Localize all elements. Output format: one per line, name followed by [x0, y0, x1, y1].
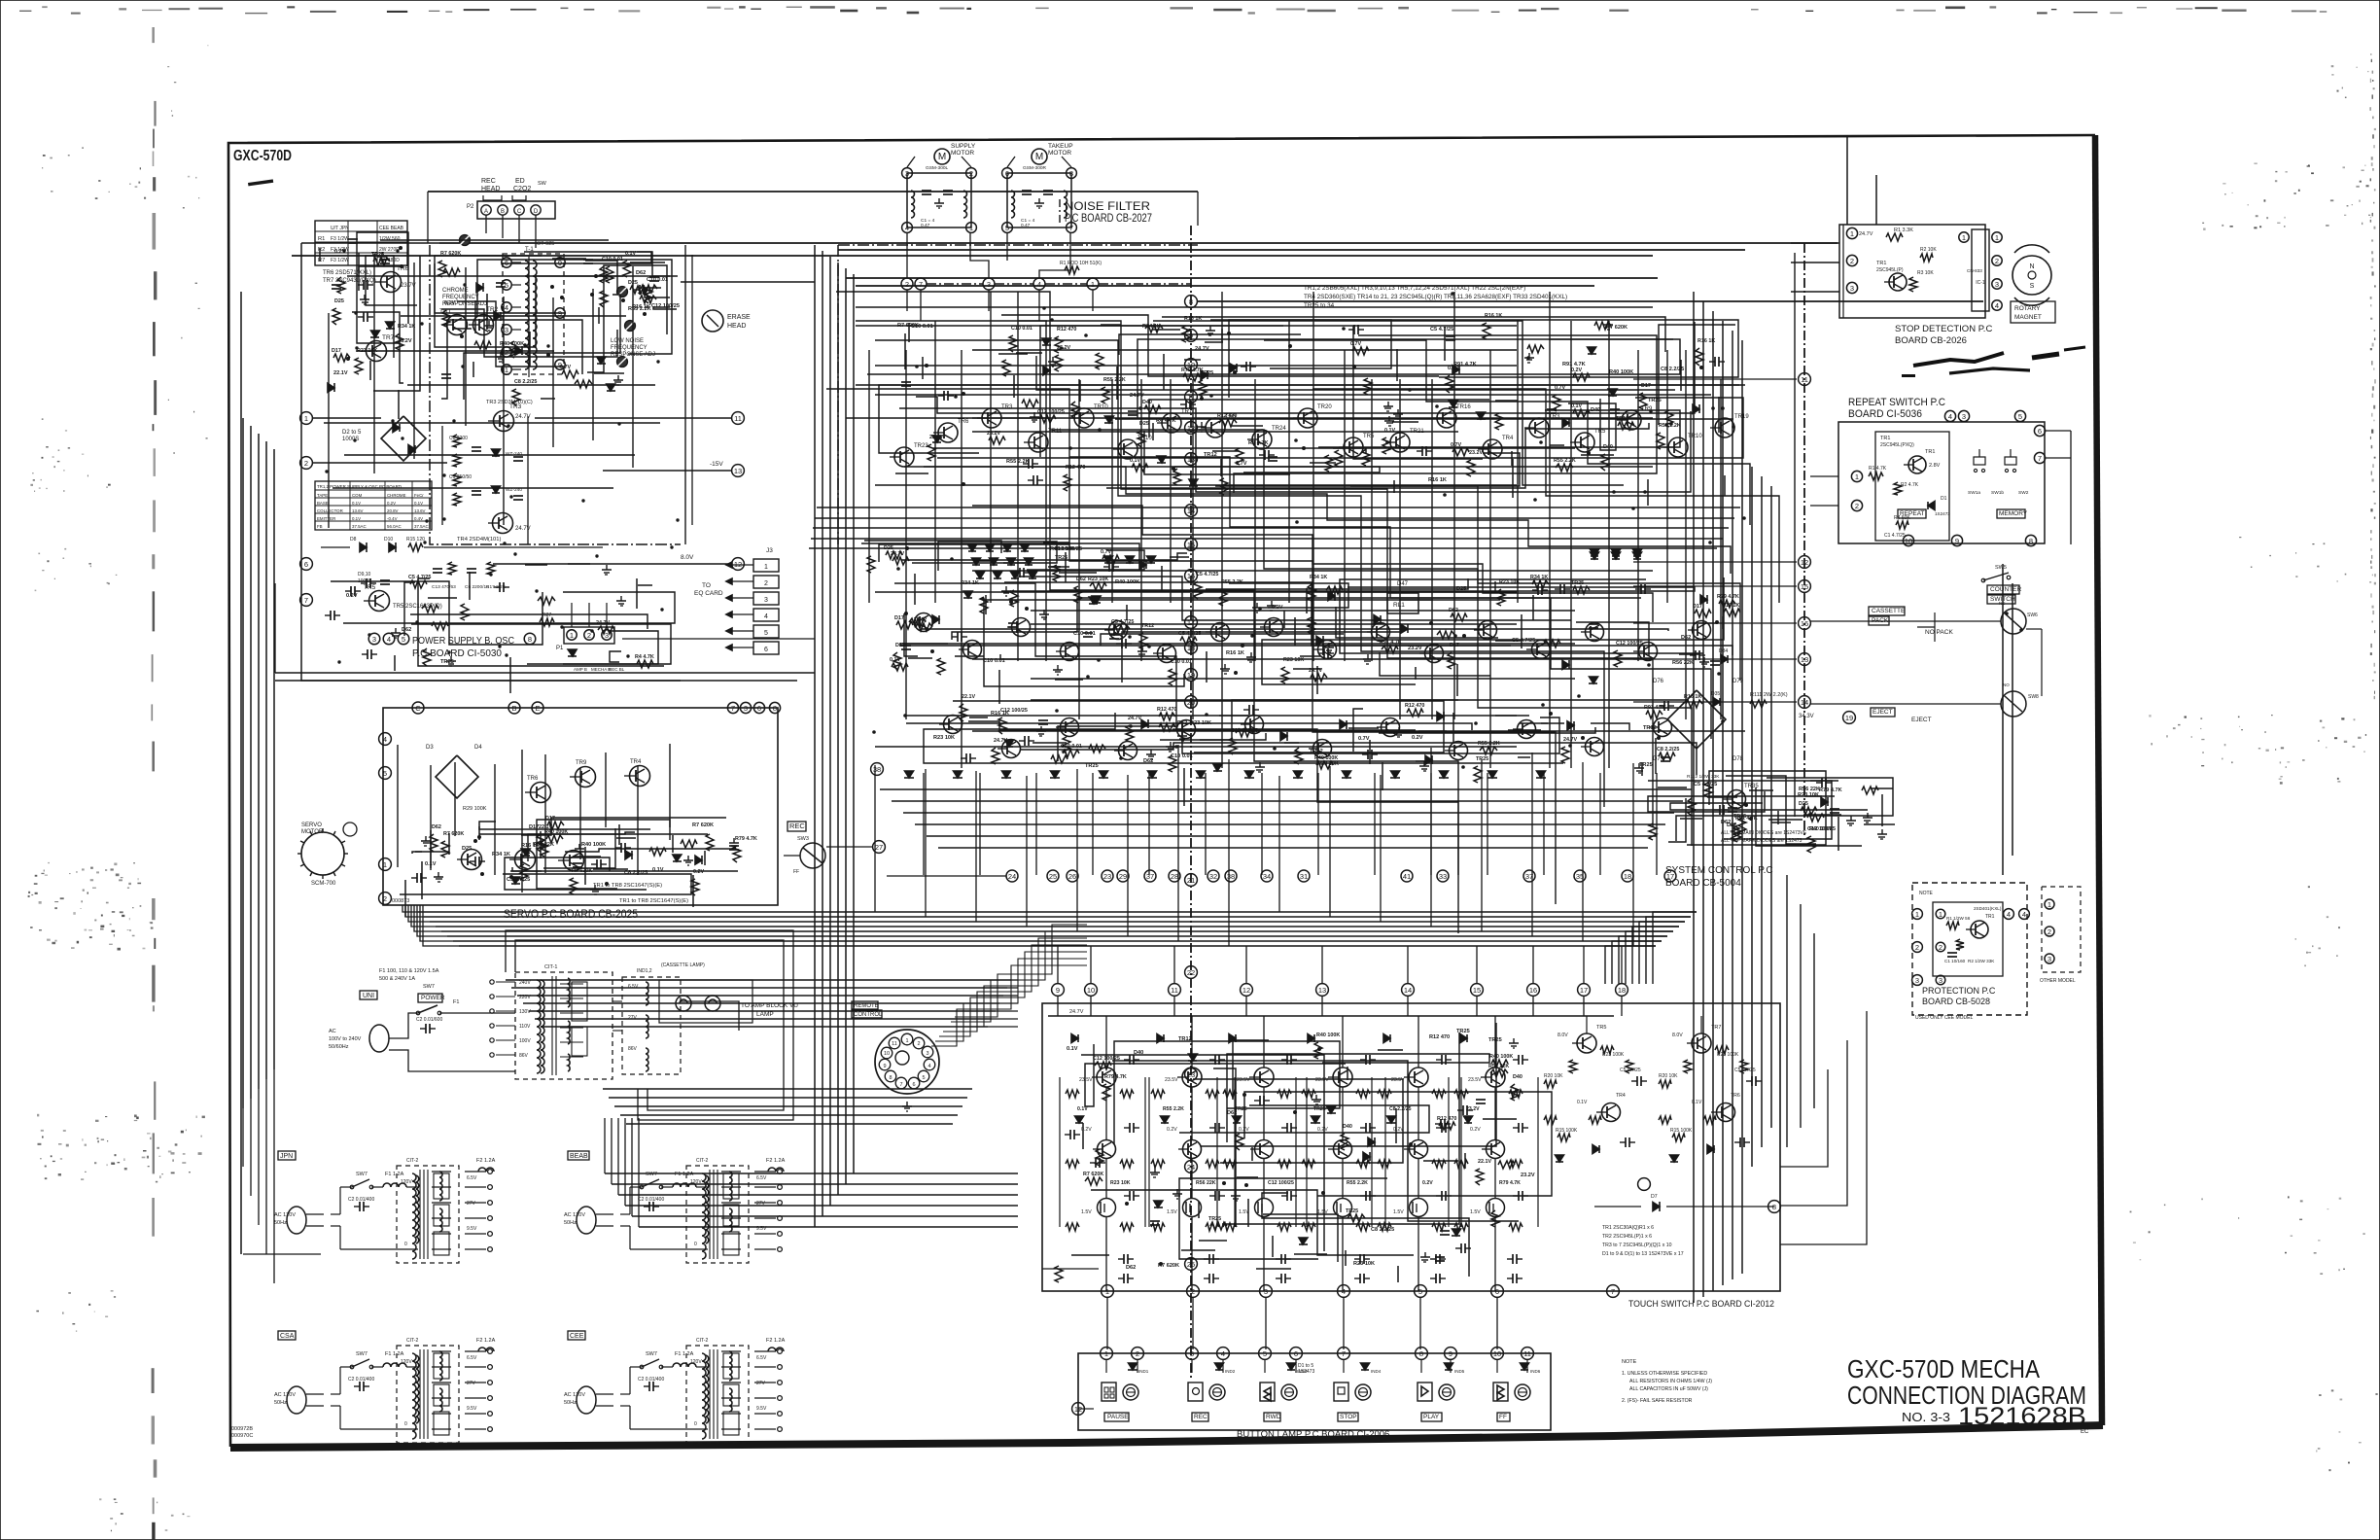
- svg-text:11: 11: [1801, 375, 1808, 384]
- svg-text:0.7V: 0.7V: [1555, 385, 1565, 391]
- svg-text:11: 11: [1523, 1349, 1531, 1358]
- svg-text:17: 17: [1580, 986, 1588, 995]
- svg-text:130V: 130V: [519, 1009, 531, 1015]
- svg-text:4: 4: [383, 735, 387, 744]
- svg-text:D40: D40: [1513, 1074, 1522, 1080]
- svg-text:R23 10K: R23 10K: [1798, 792, 1819, 798]
- svg-text:8.0V: 8.0V: [1557, 1032, 1568, 1038]
- svg-text:SERVO P.C BOARD CB-2025: SERVO P.C BOARD CB-2025: [504, 907, 638, 921]
- svg-text:2SD401(KXL): 2SD401(KXL): [1974, 906, 2002, 911]
- svg-text:TR25: TR25: [1055, 555, 1067, 561]
- svg-text:TR1 2SC30A(Q)R1 x 6: TR1 2SC30A(Q)R1 x 6: [1602, 1225, 1654, 1231]
- svg-text:5: 5: [2018, 412, 2022, 421]
- svg-text:R79 4.7K: R79 4.7K: [735, 836, 757, 842]
- svg-text:TR4: TR4: [630, 759, 642, 765]
- svg-text:R29 100K: R29 100K: [463, 806, 487, 812]
- svg-text:23.2V: 23.2V: [1466, 1106, 1480, 1112]
- svg-text:D8: D8: [350, 537, 357, 542]
- svg-text:R12 470: R12 470: [1157, 707, 1176, 713]
- svg-text:SW7: SW7: [356, 1172, 367, 1177]
- svg-text:CEE: CEE: [570, 1333, 584, 1340]
- svg-text:F1 100, 110 & 120V 1.5A: F1 100, 110 & 120V 1.5A: [379, 968, 439, 974]
- svg-text:D17: D17: [545, 816, 555, 822]
- svg-text:STOP DETECTION P.C: STOP DETECTION P.C: [1895, 324, 1992, 334]
- svg-text:C10 0.01: C10 0.01: [911, 324, 933, 330]
- svg-text:R20 10K: R20 10K: [1659, 1073, 1678, 1079]
- svg-text:C5 4.7/25: C5 4.7/25: [1734, 1067, 1756, 1073]
- svg-text:3: 3: [505, 326, 508, 334]
- svg-text:C5 4.7/25: C5 4.7/25: [1196, 572, 1218, 577]
- svg-text:TR1: TR1: [1925, 449, 1935, 455]
- svg-text:R16 1K: R16 1K: [1226, 650, 1244, 656]
- svg-text:LOW NOISE: LOW NOISE: [611, 338, 644, 344]
- svg-text:0: 0: [694, 1421, 697, 1427]
- svg-text:23.2V: 23.2V: [1408, 646, 1422, 651]
- svg-text:14: 14: [1404, 986, 1412, 995]
- svg-text:D25: D25: [884, 545, 893, 551]
- svg-text:41: 41: [1403, 872, 1411, 881]
- svg-text:SW2: SW2: [2018, 490, 2029, 496]
- svg-text:27V: 27V: [628, 1015, 638, 1021]
- svg-text:TR25: TR25: [1733, 814, 1746, 820]
- svg-text:-15V: -15V: [710, 461, 723, 468]
- svg-text:F1 1.2A: F1 1.2A: [385, 1351, 404, 1357]
- svg-text:D40: D40: [1142, 400, 1152, 405]
- svg-text:0.2V: 0.2V: [387, 501, 396, 506]
- svg-text:R23 10K: R23 10K: [1088, 577, 1108, 582]
- svg-text:000972B: 000972B: [231, 1426, 253, 1432]
- svg-text:FB: FB: [317, 524, 323, 529]
- svg-text:TR2: TR2: [486, 306, 499, 313]
- svg-text:C5 4.7/25: C5 4.7/25: [408, 575, 431, 580]
- svg-text:TR25: TR25: [1488, 1037, 1502, 1043]
- svg-text:6: 6: [304, 560, 308, 569]
- svg-text:1: 1: [383, 860, 387, 869]
- svg-text:HEAD: HEAD: [481, 186, 500, 192]
- svg-text:R40 100K: R40 100K: [1316, 1032, 1340, 1038]
- svg-text:TR6: TR6: [527, 776, 539, 782]
- svg-text:15: 15: [1473, 986, 1481, 995]
- svg-text:R1 ROD 10H 51(K): R1 ROD 10H 51(K): [1060, 261, 1102, 266]
- svg-text:R7 620K: R7 620K: [1083, 1172, 1103, 1177]
- svg-text:D9,10: D9,10: [358, 572, 371, 577]
- svg-text:C2 0.01/600: C2 0.01/600: [416, 1017, 442, 1023]
- svg-text:0.7V: 0.7V: [1451, 442, 1461, 448]
- svg-text:7: 7: [1069, 224, 1073, 232]
- svg-text:1521628B: 1521628B: [1958, 1403, 2086, 1430]
- svg-text:FF: FF: [793, 869, 799, 875]
- svg-text:R40 100K: R40 100K: [544, 829, 568, 835]
- svg-text:100V to 240V: 100V to 240V: [329, 1036, 362, 1042]
- svg-text:U/T JPN: U/T JPN: [331, 226, 349, 231]
- svg-text:TR25: TR25: [1456, 1029, 1470, 1034]
- svg-text:3: 3: [372, 635, 376, 644]
- svg-text:CN-833: CN-833: [1967, 268, 1982, 273]
- svg-text:OTHER MODEL: OTHER MODEL: [2040, 978, 2076, 984]
- svg-text:ALL -D4- MAIN DIODES are 1S247: ALL -D4- MAIN DIODES are 1S2473VE: [1721, 830, 1807, 836]
- svg-text:CHROME: CHROME: [442, 288, 469, 294]
- svg-text:7: 7: [2038, 454, 2042, 463]
- svg-text:4: 4: [764, 613, 768, 620]
- svg-text:0.1V: 0.1V: [1692, 1100, 1702, 1105]
- svg-text:D62: D62: [1126, 1265, 1136, 1271]
- svg-text:37.5AC: 37.5AC: [414, 524, 429, 529]
- svg-text:EJECT: EJECT: [1911, 717, 1932, 723]
- svg-text:D3: D3: [426, 745, 434, 751]
- svg-text:C12 100/25: C12 100/25: [1268, 1180, 1294, 1186]
- svg-text:D76: D76: [1653, 679, 1664, 684]
- svg-text:3: 3: [987, 280, 991, 289]
- svg-text:38: 38: [873, 765, 881, 774]
- svg-text:3: 3: [744, 704, 748, 713]
- svg-text:LAMP: LAMP: [756, 1011, 774, 1018]
- svg-text:TR7: TR7: [382, 334, 395, 341]
- svg-text:C8 2200: C8 2200: [449, 436, 468, 441]
- svg-text:24: 24: [1008, 872, 1016, 881]
- svg-text:16: 16: [1187, 572, 1195, 580]
- svg-text:D77: D77: [1653, 756, 1664, 762]
- svg-text:NOTE: NOTE: [1622, 1359, 1637, 1365]
- svg-text:IC-1: IC-1: [1976, 280, 1985, 286]
- svg-text:11: 11: [1171, 986, 1178, 995]
- svg-text:5: 5: [922, 1075, 925, 1081]
- svg-text:R23 10K: R23 10K: [1190, 720, 1211, 726]
- svg-text:AC 120V: AC 120V: [274, 1392, 296, 1398]
- svg-text:F1 1.2A: F1 1.2A: [385, 1172, 404, 1177]
- svg-text:R55 2.2K: R55 2.2K: [1103, 377, 1126, 383]
- svg-text:TR4: TR4: [1616, 1093, 1626, 1099]
- svg-text:M: M: [1035, 152, 1043, 162]
- svg-text:5: 5: [402, 635, 405, 644]
- svg-text:D1 to 9 & D(1) to 13 1S2473VE: D1 to 9 & D(1) to 13 1S2473VE x 17: [1602, 1251, 1684, 1257]
- svg-text:F1: F1: [453, 999, 459, 1005]
- svg-text:D17: D17: [1693, 604, 1702, 610]
- svg-text:EMITTER: EMITTER: [317, 516, 335, 521]
- svg-text:TOUCH SWITCH P.C BOARD CI-: TOUCH SWITCH P.C BOARD CI-2012: [1628, 1299, 1774, 1310]
- svg-text:1S2473: 1S2473: [1298, 1369, 1314, 1375]
- svg-text:R7 620K: R7 620K: [1158, 1263, 1179, 1269]
- svg-text:86V: 86V: [628, 1046, 638, 1052]
- svg-text:1: 1: [570, 631, 574, 640]
- svg-text:32: 32: [1209, 872, 1217, 881]
- svg-text:R56 22K: R56 22K: [1799, 787, 1820, 792]
- svg-text:2: 2: [764, 580, 768, 587]
- svg-text:IND2: IND2: [1225, 1369, 1236, 1374]
- svg-text:4: 4: [505, 303, 508, 312]
- svg-text:2: 2: [1915, 943, 1919, 952]
- svg-text:R23 10K: R23 10K: [1283, 657, 1304, 663]
- svg-text:6.5V: 6.5V: [756, 1175, 767, 1181]
- svg-text:24.7V: 24.7V: [994, 738, 1007, 744]
- svg-text:12: 12: [1801, 558, 1808, 567]
- svg-text:R34 1K: R34 1K: [398, 324, 415, 330]
- svg-text:NOTE: NOTE: [1919, 891, 1934, 896]
- svg-text:0.2V: 0.2V: [1412, 735, 1423, 741]
- svg-text:TR6: TR6: [958, 419, 969, 425]
- svg-text:000873: 000873: [392, 898, 409, 904]
- svg-text:4: 4: [2007, 910, 2011, 919]
- svg-text:0.2V: 0.2V: [1470, 1127, 1481, 1133]
- svg-text:5: 5: [1005, 224, 1009, 232]
- svg-text:AC: AC: [329, 1029, 336, 1034]
- svg-text:22.1V: 22.1V: [333, 370, 348, 376]
- svg-text:R56 22K: R56 22K: [1672, 660, 1694, 666]
- svg-text:R23 100K: R23 100K: [1717, 1052, 1739, 1058]
- svg-text:0.7V: 0.7V: [1358, 736, 1370, 742]
- svg-text:R2 10K: R2 10K: [1920, 247, 1937, 253]
- svg-text:0.2V: 0.2V: [693, 869, 704, 875]
- svg-text:D62: D62: [1177, 720, 1187, 726]
- svg-text:37.5AC: 37.5AC: [352, 524, 367, 529]
- svg-text:REMOTE: REMOTE: [854, 1003, 879, 1009]
- svg-text:7: 7: [919, 280, 923, 289]
- svg-text:2: 2: [1191, 1287, 1195, 1296]
- svg-text:ALL -D4- MARK DIODES are 1S247: ALL -D4- MARK DIODES are 1S2473: [1721, 838, 1802, 844]
- svg-text:2: 2: [1855, 502, 1859, 510]
- svg-text:B: B: [511, 704, 516, 713]
- svg-text:8: 8: [1069, 169, 1073, 178]
- svg-text:17: 17: [1666, 872, 1674, 881]
- svg-text:1.5V: 1.5V: [1470, 1209, 1481, 1215]
- svg-text:SW7: SW7: [423, 984, 435, 990]
- svg-text:BOARD CI-5036: BOARD CI-5036: [1848, 408, 1922, 420]
- svg-text:C12 100/25: C12 100/25: [1037, 409, 1065, 415]
- svg-text:D40: D40: [1591, 407, 1600, 413]
- svg-text:0: 0: [404, 1421, 407, 1427]
- svg-text:R4 4.7K: R4 4.7K: [635, 654, 654, 660]
- svg-text:0.1V: 0.1V: [652, 867, 664, 873]
- svg-text:0.47: 0.47: [921, 223, 930, 228]
- svg-text:NC: NC: [1999, 601, 2006, 606]
- svg-text:D62: D62: [636, 270, 646, 276]
- svg-text:C2 0.01/400: C2 0.01/400: [348, 1377, 374, 1382]
- svg-text:BOARD CB-2026: BOARD CB-2026: [1895, 335, 1967, 346]
- svg-text:NO PACK: NO PACK: [1925, 629, 1953, 636]
- svg-text:R79 4.7K: R79 4.7K: [1819, 787, 1842, 793]
- svg-text:TR4 2SD4M(101): TR4 2SD4M(101): [457, 537, 501, 542]
- svg-text:R16 1K: R16 1K: [632, 304, 650, 310]
- svg-text:000970C: 000970C: [231, 1433, 253, 1439]
- svg-text:TR25: TR25: [1208, 1216, 1221, 1222]
- svg-text:25: 25: [1049, 872, 1057, 881]
- svg-text:R55 2.2K: R55 2.2K: [1554, 458, 1576, 464]
- svg-text:UNI: UNI: [363, 993, 374, 999]
- svg-text:8: 8: [2029, 537, 2033, 545]
- svg-text:SERVO: SERVO: [301, 822, 322, 828]
- svg-text:R12 470: R12 470: [1405, 703, 1424, 709]
- svg-text:0: 0: [404, 1242, 407, 1247]
- svg-text:SW8: SW8: [2028, 694, 2039, 700]
- svg-text:BEAB: BEAB: [570, 1153, 588, 1160]
- svg-text:1: 1: [2047, 900, 2051, 909]
- svg-text:ALL RESISTORS IN OHMS 1/4W (J): ALL RESISTORS IN OHMS 1/4W (J): [1629, 1379, 1712, 1384]
- svg-text:C8 2.2/25: C8 2.2/25: [1657, 747, 1679, 752]
- svg-text:FF: FF: [1499, 1414, 1507, 1420]
- svg-text:R15 100K: R15 100K: [1670, 1128, 1693, 1134]
- svg-text:D17: D17: [895, 643, 905, 648]
- svg-text:(CASSETTE LAMP): (CASSETTE LAMP): [661, 962, 705, 968]
- svg-text:D79: D79: [1732, 679, 1744, 684]
- svg-text:GXC-570D: GXC-570D: [233, 148, 292, 164]
- svg-text:2: 2: [905, 280, 909, 289]
- svg-text:25: 25: [1187, 1260, 1195, 1269]
- svg-text:TR1: TR1: [1985, 914, 1995, 920]
- svg-text:86V: 86V: [519, 1053, 529, 1059]
- svg-text:R23 10K: R23 10K: [1110, 1180, 1131, 1186]
- svg-text:13.6V: 13.6V: [414, 508, 426, 513]
- svg-text:TR25: TR25: [1639, 762, 1653, 768]
- svg-text:D17: D17: [1641, 383, 1651, 389]
- svg-text:C: C: [415, 704, 421, 713]
- svg-text:0.7V: 0.7V: [1236, 461, 1247, 467]
- svg-text:4: 4: [1342, 1287, 1346, 1296]
- svg-text:2: 2: [917, 1041, 920, 1047]
- svg-text:SW3: SW3: [797, 836, 809, 842]
- svg-text:TR2 2SC945L(P)1 x 6: TR2 2SC945L(P)1 x 6: [1602, 1234, 1652, 1240]
- svg-text:22: 22: [1187, 968, 1195, 977]
- svg-text:C2 0.01/400: C2 0.01/400: [348, 1197, 374, 1203]
- svg-text:23.5V: 23.5V: [1315, 1077, 1329, 1083]
- svg-text:TR5: TR5: [1363, 434, 1375, 439]
- svg-text:FeCr: FeCr: [414, 493, 424, 498]
- svg-text:1: 1: [1850, 229, 1854, 238]
- svg-text:4: 4: [387, 635, 391, 644]
- svg-text:ED: ED: [515, 178, 525, 185]
- svg-text:4: 4: [1221, 1349, 1225, 1358]
- svg-text:23.2V: 23.2V: [1521, 1172, 1535, 1178]
- svg-text:38: 38: [1227, 872, 1235, 881]
- svg-text:16: 16: [1529, 986, 1537, 995]
- svg-text:2SC945L(PXQ): 2SC945L(PXQ): [1880, 442, 1914, 448]
- svg-text:TR10: TR10: [1094, 404, 1108, 410]
- svg-text:4: 4: [1037, 280, 1041, 289]
- svg-text:D25: D25: [334, 298, 344, 304]
- svg-text:14: 14: [1801, 698, 1808, 707]
- svg-text:D40: D40: [1343, 1124, 1352, 1130]
- svg-text:D7: D7: [1651, 1194, 1658, 1200]
- svg-text:1.5V: 1.5V: [1393, 1209, 1404, 1215]
- svg-text:0: 0: [694, 1242, 697, 1247]
- svg-text:1: 1: [764, 564, 768, 571]
- svg-text:1: 1: [1091, 280, 1095, 289]
- svg-text:0.47: 0.47: [1021, 223, 1031, 228]
- svg-text:CHROME: CHROME: [387, 493, 406, 498]
- svg-text:D10: D10: [384, 537, 393, 542]
- svg-text:R1 1/2W 56: R1 1/2W 56: [1946, 916, 1971, 921]
- svg-text:5: 5: [1418, 1287, 1422, 1296]
- svg-text:D1: D1: [1941, 496, 1947, 502]
- svg-text:D78: D78: [1732, 756, 1744, 762]
- svg-text:26: 26: [1068, 872, 1076, 881]
- svg-text:F1 1.2A: F1 1.2A: [675, 1172, 694, 1177]
- svg-text:E: E: [535, 704, 540, 713]
- svg-text:3: 3: [1850, 284, 1854, 293]
- svg-text:10: 10: [1905, 537, 1912, 545]
- svg-text:3: 3: [926, 1051, 928, 1057]
- svg-text:R56 22K: R56 22K: [1488, 1064, 1509, 1069]
- svg-text:SW1b: SW1b: [1991, 490, 2004, 496]
- svg-text:11: 11: [734, 414, 742, 423]
- svg-text:C2 0.01/400: C2 0.01/400: [638, 1377, 664, 1382]
- svg-text:IND4: IND4: [1371, 1369, 1382, 1374]
- svg-text:2: 2: [1939, 943, 1942, 952]
- svg-text:9: 9: [1056, 986, 1060, 995]
- svg-text:2: 2: [587, 631, 591, 640]
- svg-text:1000S: 1000S: [342, 437, 359, 442]
- svg-text:TR6: TR6: [1731, 1093, 1740, 1099]
- svg-text:SW6: SW6: [2027, 612, 2038, 618]
- svg-text:F2 1.2A: F2 1.2A: [476, 1158, 496, 1164]
- svg-text:0.2V: 0.2V: [1272, 605, 1283, 611]
- svg-text:29: 29: [1119, 872, 1127, 881]
- svg-text:CSA: CSA: [280, 1333, 295, 1340]
- svg-text:GSM-300R: GSM-300R: [1023, 165, 1047, 171]
- svg-text:3: 3: [1264, 1287, 1268, 1296]
- svg-text:3: 3: [2047, 955, 2051, 963]
- svg-text:MOTOR: MOTOR: [1048, 150, 1071, 157]
- svg-text:R7: R7: [318, 258, 325, 263]
- svg-text:6.5V: 6.5V: [628, 984, 639, 990]
- svg-text:2.8V: 2.8V: [1929, 463, 1941, 469]
- svg-text:2. (FS)- FAIL SAFE RESISTOR: 2. (FS)- FAIL SAFE RESISTOR: [1622, 1398, 1693, 1404]
- svg-text:0.1V: 0.1V: [1067, 1046, 1078, 1052]
- svg-text:TR3 2SD3M(10)(C): TR3 2SD3M(10)(C): [486, 400, 533, 405]
- svg-text:N: N: [2029, 263, 2034, 270]
- svg-text:27: 27: [875, 843, 883, 852]
- svg-text:22.1V: 22.1V: [1478, 1159, 1491, 1165]
- svg-text:CONTROL: CONTROL: [854, 1012, 883, 1018]
- svg-text:2: 2: [1850, 257, 1854, 265]
- svg-text:13: 13: [1801, 655, 1808, 664]
- svg-text:R55 2.2K: R55 2.2K: [1221, 579, 1243, 585]
- svg-text:24.7V: 24.7V: [596, 620, 610, 626]
- svg-text:14: 14: [1187, 507, 1195, 515]
- svg-text:TR1 to TR8 2SC1647(S)(E): TR1 to TR8 2SC1647(S)(E): [619, 898, 688, 904]
- svg-text:3: 3: [1915, 976, 1919, 985]
- svg-text:R55 2.2K: R55 2.2K: [1347, 1180, 1368, 1186]
- svg-text:10: 10: [1493, 1349, 1501, 1358]
- svg-text:3: 3: [605, 631, 609, 640]
- svg-text:50Hz: 50Hz: [564, 1220, 577, 1226]
- svg-text:R3 10K: R3 10K: [1917, 270, 1934, 276]
- svg-text:R56 22K: R56 22K: [1196, 1180, 1216, 1186]
- svg-text:2SC945L(P): 2SC945L(P): [1876, 267, 1904, 273]
- svg-text:RL1: RL1: [1393, 602, 1405, 609]
- svg-text:R34 1K: R34 1K: [1530, 575, 1548, 580]
- svg-text:SW1a: SW1a: [1968, 490, 1980, 496]
- svg-text:CIT-2: CIT-2: [406, 1338, 418, 1344]
- svg-text:24.7V: 24.7V: [1195, 346, 1209, 352]
- svg-text:7: 7: [1611, 1287, 1615, 1296]
- svg-text:2: 2: [969, 169, 973, 178]
- svg-text:2: 2: [2047, 927, 2051, 936]
- svg-text:18: 18: [1618, 986, 1626, 995]
- svg-text:R12 470: R12 470: [1057, 327, 1076, 332]
- svg-text:BOARD CB-5028: BOARD CB-5028: [1922, 997, 1990, 1006]
- svg-text:23.5V: 23.5V: [1165, 1077, 1178, 1083]
- svg-text:6: 6: [1294, 1349, 1298, 1358]
- svg-text:R7 620K: R7 620K: [440, 251, 461, 257]
- svg-text:R79 4.7K: R79 4.7K: [1104, 1074, 1127, 1080]
- svg-text:0.1V: 0.1V: [444, 300, 455, 306]
- svg-text:R79 4.7K: R79 4.7K: [1499, 1180, 1521, 1186]
- svg-text:1.5V: 1.5V: [1081, 1209, 1092, 1215]
- svg-text:9.5V: 9.5V: [756, 1406, 767, 1412]
- svg-text:6: 6: [757, 704, 761, 713]
- svg-text:23: 23: [1103, 872, 1111, 881]
- svg-text:0.1V: 0.1V: [414, 501, 423, 506]
- svg-text:R23 10K: R23 10K: [933, 735, 955, 741]
